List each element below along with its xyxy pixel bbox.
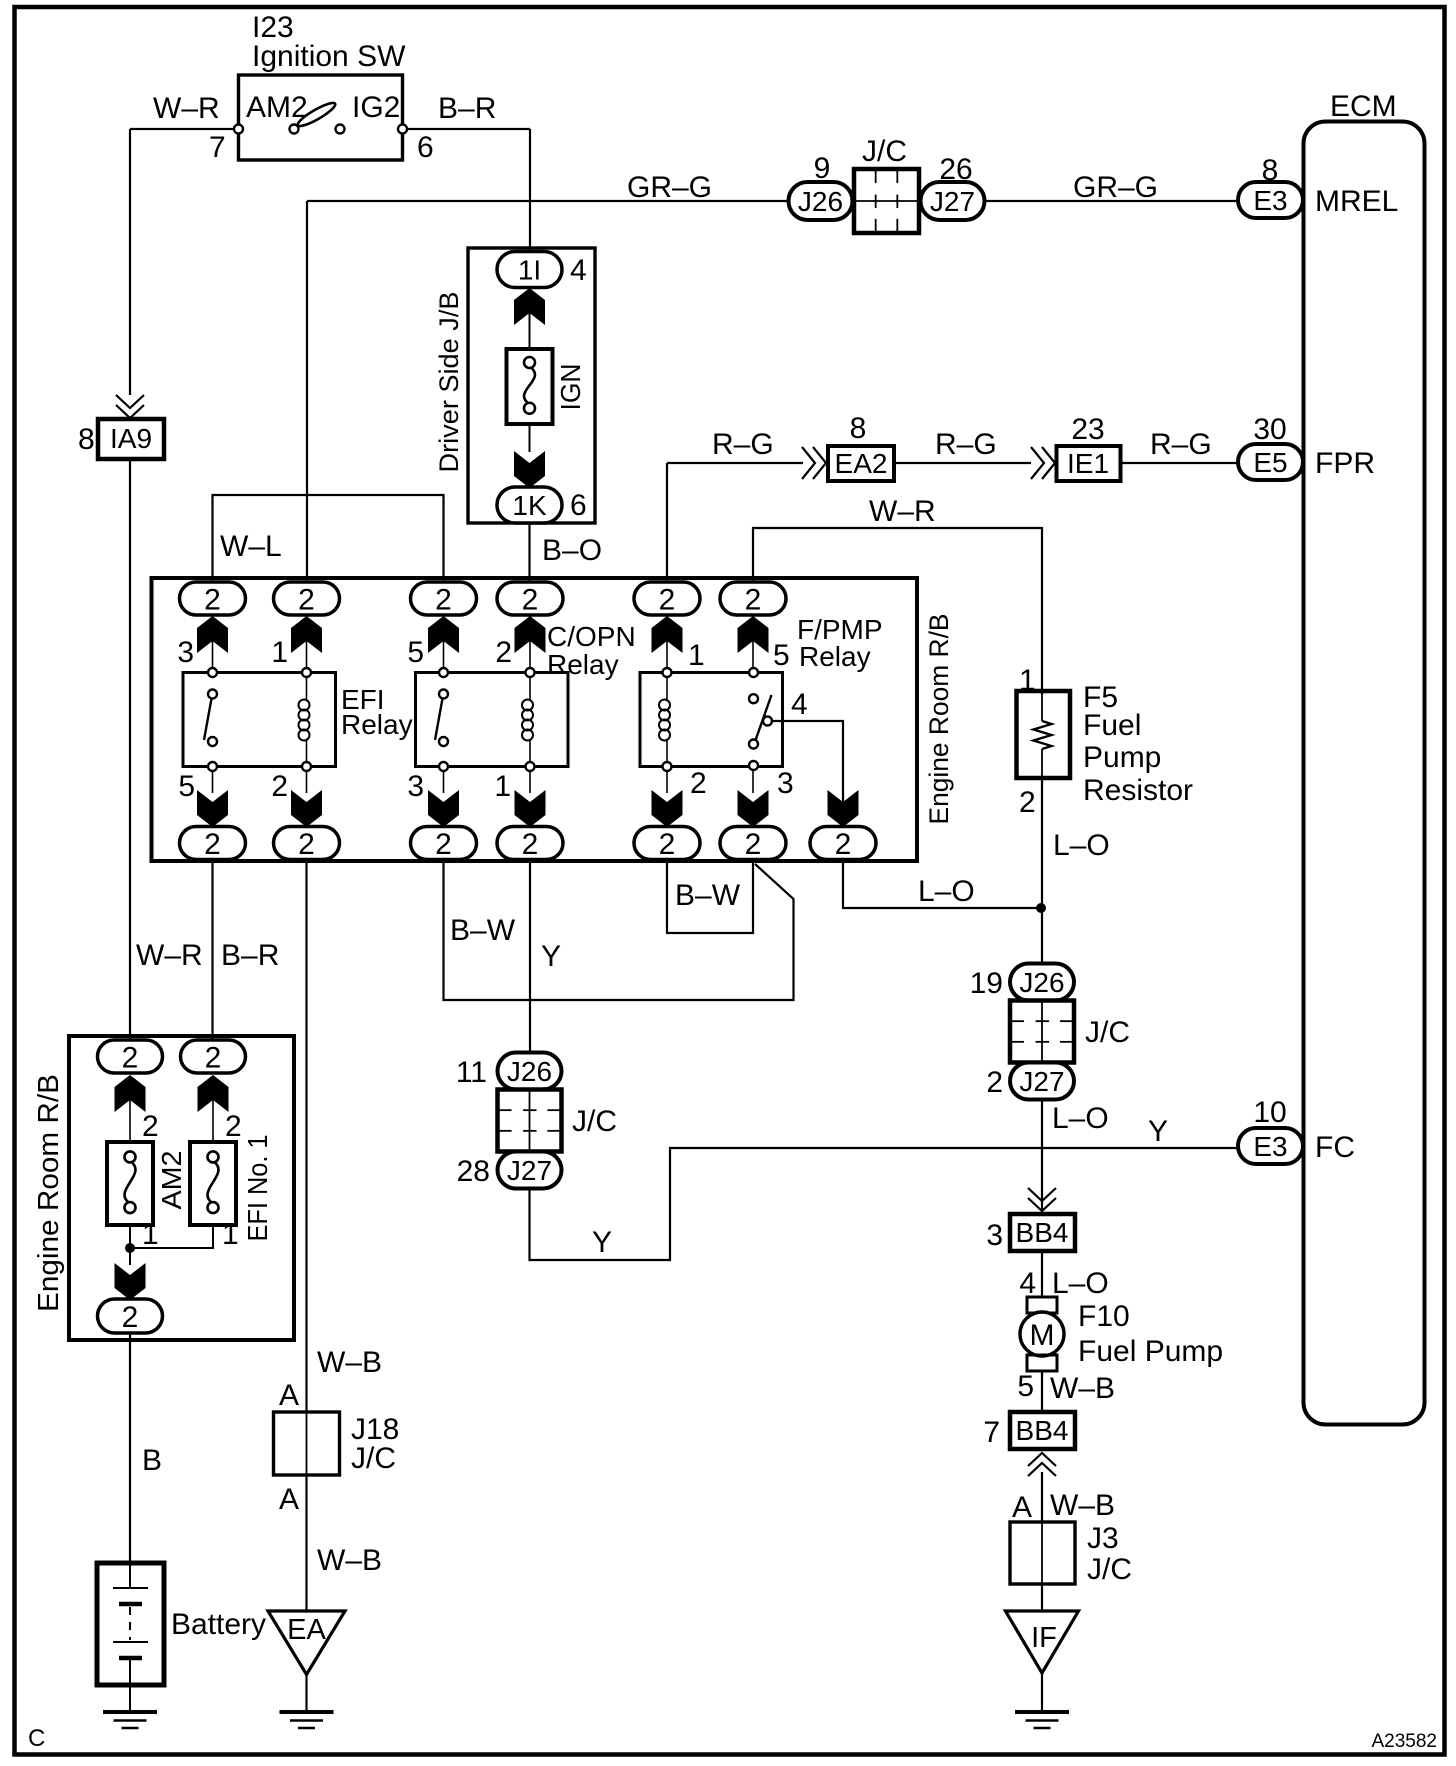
- relay block top cavity 2 at x=212.5: [180, 582, 246, 615]
- F/PMP relay switch: [755, 695, 772, 743]
- svg-text:EFI No. 1: EFI No. 1: [242, 1135, 273, 1242]
- wire Y J27 to ECM FC: [530, 1148, 1239, 1260]
- svg-text:Relay: Relay: [799, 641, 871, 672]
- fuse EFI No. 1: [190, 1142, 236, 1225]
- connector 1K pin 6: [497, 487, 562, 523]
- svg-text:R–G: R–G: [712, 428, 774, 461]
- svg-text:2: 2: [659, 828, 676, 861]
- svg-text:Relay: Relay: [341, 709, 413, 740]
- svg-text:J/C: J/C: [1087, 1553, 1132, 1586]
- wire B-O to C/OPN relay: [528, 523, 530, 583]
- svg-text:Resistor: Resistor: [1083, 774, 1193, 807]
- svg-text:B–O: B–O: [542, 534, 602, 567]
- svg-text:AM2: AM2: [246, 91, 308, 124]
- svg-text:F10: F10: [1078, 1300, 1130, 1333]
- arrow down above bottom cavity x=843: [828, 790, 859, 827]
- connector BB4 pin 3: [1010, 1214, 1075, 1251]
- fuel pump F10 motor: [1027, 1297, 1057, 1313]
- svg-text:W–B: W–B: [1050, 1372, 1115, 1405]
- svg-text:4: 4: [570, 254, 587, 287]
- svg-text:1: 1: [688, 639, 705, 672]
- ECM pin E3 FC: [1238, 1128, 1303, 1164]
- relay block top cavity 2 at x=753: [720, 582, 786, 615]
- connector IE1 pin 23: [1031, 447, 1044, 479]
- svg-text:J26: J26: [1019, 967, 1064, 998]
- svg-text:2: 2: [745, 828, 762, 861]
- arrow up below cavity x=212.5: [197, 616, 228, 653]
- svg-text:26: 26: [939, 153, 972, 186]
- svg-text:L–O: L–O: [1053, 829, 1110, 862]
- svg-text:Y: Y: [592, 1226, 612, 1259]
- arrow up below cavity x=667: [652, 616, 683, 653]
- svg-text:Ignition SW: Ignition SW: [252, 40, 406, 73]
- relay block top cavity 2 at x=530: [497, 582, 563, 615]
- fuel pump resistor F5 box: [1017, 691, 1071, 778]
- wire B fuse block to battery: [129, 1333, 131, 1563]
- svg-text:Pump: Pump: [1083, 741, 1161, 774]
- ignition switch lever: [295, 100, 337, 130]
- arrow down above bottom cavity x=443.5: [428, 790, 459, 827]
- arrow down above bottom cavity x=667: [652, 790, 683, 827]
- relay block bottom cavity 2 at x=843: [810, 827, 876, 860]
- wire W-R ignition feed: [130, 128, 238, 130]
- fuel pump resistor zigzag: [1041, 695, 1043, 721]
- svg-text:4: 4: [1019, 1267, 1036, 1300]
- relay block bottom cavity 2 at x=212.5: [180, 827, 246, 860]
- svg-text:28: 28: [457, 1155, 490, 1188]
- svg-text:2: 2: [522, 583, 539, 616]
- svg-text:Fuel Pump: Fuel Pump: [1078, 1335, 1223, 1368]
- connector EA2 pin 8: [802, 447, 815, 479]
- svg-text:11: 11: [456, 1056, 487, 1089]
- svg-text:Driver Side J/B: Driver Side J/B: [434, 292, 464, 473]
- svg-text:FPR: FPR: [1315, 447, 1375, 480]
- junction connector J26 pin 19: [1010, 964, 1074, 1001]
- svg-text:1K: 1K: [512, 490, 547, 521]
- svg-text:23: 23: [1071, 413, 1104, 446]
- svg-text:5: 5: [773, 639, 790, 672]
- svg-text:E3: E3: [1253, 1131, 1287, 1162]
- wire W-B EFI pin2 to J18: [305, 860, 307, 1413]
- wire to IF ground: [1041, 1584, 1043, 1611]
- arrow up into 1I: [514, 288, 545, 325]
- connector 1I pin 4: [497, 252, 562, 288]
- svg-text:2: 2: [298, 583, 315, 616]
- wire B-R from IG2: [403, 128, 530, 130]
- svg-text:E5: E5: [1253, 447, 1287, 478]
- relay block top cavity 2 at x=306.5: [274, 582, 340, 615]
- svg-text:W–R: W–R: [153, 92, 220, 125]
- svg-text:2: 2: [435, 583, 452, 616]
- svg-text:B–W: B–W: [675, 879, 741, 912]
- svg-text:3: 3: [177, 636, 194, 669]
- wire Y C/OPN pin1 to J/C: [529, 860, 531, 1053]
- wire L-O F/PMP pin4 branch: [843, 860, 1041, 909]
- svg-text:Engine Room R/B: Engine Room R/B: [924, 614, 954, 825]
- svg-text:R–G: R–G: [935, 428, 997, 461]
- ECM pin E3 MREL: [1238, 182, 1303, 218]
- svg-text:1: 1: [142, 1218, 159, 1251]
- Engine Room R/B relay block box: [152, 578, 918, 861]
- F/PMP relay coil: [666, 673, 668, 701]
- svg-text:Y: Y: [1148, 1115, 1168, 1148]
- F/PMP relay box: [640, 673, 783, 767]
- svg-text:IA9: IA9: [110, 423, 152, 454]
- svg-text:E3: E3: [1253, 185, 1287, 216]
- svg-text:EA2: EA2: [835, 448, 888, 479]
- arrow down to 1K: [514, 451, 545, 488]
- svg-text:L–O: L–O: [1052, 1102, 1109, 1135]
- svg-text:A23582: A23582: [1371, 1731, 1437, 1752]
- svg-text:IG2: IG2: [352, 91, 400, 124]
- svg-text:C: C: [28, 1725, 45, 1752]
- svg-text:W–B: W–B: [1050, 1489, 1115, 1522]
- svg-text:2: 2: [122, 1301, 139, 1334]
- svg-text:W–R: W–R: [136, 939, 203, 972]
- arrow down above bottom cavity x=530: [515, 790, 546, 827]
- svg-text:1: 1: [222, 1218, 239, 1251]
- ground point EA: [268, 1611, 345, 1675]
- relay block top cavity 2 at x=443.5: [411, 582, 477, 615]
- junction connector J3: [1010, 1522, 1075, 1584]
- ground point IF: [1006, 1611, 1079, 1673]
- svg-text:3: 3: [777, 767, 794, 800]
- svg-text:W–B: W–B: [317, 1346, 382, 1379]
- chevron into BB4: [1028, 1188, 1056, 1201]
- wire B-W C/OPN pin3 to F/PMP pin3: [444, 860, 794, 1001]
- svg-text:19: 19: [970, 967, 1003, 1000]
- svg-text:W–R: W–R: [869, 495, 936, 528]
- svg-text:B–W: B–W: [450, 914, 516, 947]
- Engine Room R/B fuse block box: [69, 1036, 294, 1340]
- svg-text:9: 9: [814, 152, 831, 185]
- svg-text:FC: FC: [1315, 1131, 1355, 1164]
- wire W-R down-left: [129, 129, 131, 395]
- wire W-B BB4 to J3: [1041, 1472, 1043, 1522]
- wire GR-G from EFI relay coil: [307, 200, 789, 202]
- svg-text:GR–G: GR–G: [627, 171, 712, 204]
- svg-text:5: 5: [407, 636, 424, 669]
- connector IA9 pin 8: [98, 419, 164, 459]
- svg-text:3: 3: [986, 1219, 1003, 1252]
- svg-text:R–G: R–G: [1150, 428, 1212, 461]
- chevron into IA9: [116, 395, 144, 408]
- svg-text:1: 1: [494, 770, 511, 803]
- wire W-B J18 to EA: [305, 1475, 307, 1611]
- svg-text:2: 2: [271, 770, 288, 803]
- fuse IGN: [507, 349, 553, 424]
- battery box: [97, 1563, 164, 1685]
- svg-text:J/C: J/C: [572, 1105, 617, 1138]
- svg-text:J27: J27: [1019, 1066, 1064, 1097]
- svg-text:BB4: BB4: [1016, 1415, 1069, 1446]
- arrow up below cavity x=443.5: [428, 616, 459, 653]
- svg-text:J26: J26: [798, 186, 843, 217]
- wire R-G EA2 to IE1: [894, 462, 1031, 464]
- svg-text:J/C: J/C: [1085, 1016, 1130, 1049]
- svg-text:1I: 1I: [518, 255, 541, 286]
- battery cells: [129, 1563, 131, 1588]
- svg-text:J/C: J/C: [351, 1442, 396, 1475]
- relay block bottom cavity 2 at x=667: [634, 827, 700, 860]
- svg-text:3: 3: [407, 770, 424, 803]
- Driver Side J/B box: [468, 248, 595, 523]
- fuse AM2: [107, 1142, 153, 1225]
- svg-text:W–L: W–L: [220, 530, 282, 563]
- svg-text:2: 2: [522, 828, 539, 861]
- svg-text:2: 2: [835, 828, 852, 861]
- junction connector J/C grid v1: [1010, 1001, 1074, 1063]
- relay block top cavity 2 at x=667: [634, 582, 700, 615]
- relay block bottom cavity 2 at x=753: [720, 827, 786, 860]
- svg-text:B: B: [142, 1444, 162, 1477]
- fuse block cavity 2 (EFI top): [181, 1040, 246, 1073]
- relay block bottom cavity 2 at x=443.5: [411, 827, 477, 860]
- EFI relay switch: [204, 699, 212, 741]
- svg-text:2: 2: [204, 583, 221, 616]
- svg-text:MREL: MREL: [1315, 185, 1398, 218]
- F/PMP relay pin4 wire: [768, 721, 844, 827]
- svg-text:2: 2: [298, 828, 315, 861]
- wire B-R EFI pin5 to fuse block: [211, 860, 213, 1041]
- svg-text:8: 8: [850, 412, 867, 445]
- svg-text:2: 2: [142, 1110, 159, 1143]
- relay block bottom cavity 2 at x=306.5: [274, 827, 340, 860]
- svg-text:6: 6: [570, 489, 587, 522]
- svg-text:2: 2: [986, 1066, 1003, 1099]
- svg-text:J27: J27: [507, 1155, 552, 1186]
- svg-text:J/C: J/C: [862, 135, 907, 168]
- wire R-G IE1 to ECM: [1121, 462, 1239, 464]
- svg-text:J26: J26: [507, 1056, 552, 1087]
- svg-text:M: M: [1030, 1319, 1055, 1352]
- svg-text:30: 30: [1253, 413, 1286, 446]
- svg-text:2: 2: [435, 828, 452, 861]
- arrow up below cavity x=753: [738, 616, 769, 653]
- svg-text:4: 4: [791, 688, 808, 721]
- svg-text:2: 2: [495, 636, 512, 669]
- arrow down above bottom cavity x=212.5: [197, 790, 228, 827]
- svg-text:7: 7: [983, 1416, 1000, 1449]
- junction connector J27 pin 28: [498, 1152, 562, 1189]
- svg-text:2: 2: [204, 828, 221, 861]
- arrow up below cavity x=306.5: [291, 616, 322, 653]
- C/OPN relay switch: [435, 699, 443, 741]
- svg-text:8: 8: [1262, 154, 1279, 187]
- wire W-R IA9 to engine room R/B: [129, 459, 131, 1040]
- svg-text:BB4: BB4: [1016, 1217, 1069, 1248]
- svg-text:7: 7: [209, 131, 226, 164]
- svg-text:B–R: B–R: [221, 939, 279, 972]
- junction connector J27 pin 2: [1010, 1063, 1074, 1100]
- svg-text:8: 8: [78, 423, 95, 456]
- svg-text:IF: IF: [1031, 1622, 1057, 1654]
- fuse block cavity 2 (AM2 top): [98, 1040, 163, 1073]
- svg-text:2: 2: [745, 583, 762, 616]
- junction connector J26 pin 9: [789, 182, 853, 220]
- svg-text:A: A: [279, 1379, 299, 1412]
- arrow up AM2: [115, 1075, 146, 1112]
- arrow up below cavity x=530: [515, 616, 546, 653]
- chevron out of BB4: [1028, 1463, 1056, 1476]
- svg-text:Relay: Relay: [547, 649, 619, 680]
- svg-text:A: A: [1012, 1491, 1032, 1524]
- wire R-G from F/PMP relay pin1: [667, 462, 803, 464]
- svg-text:Battery: Battery: [171, 1608, 266, 1641]
- wire L-O J27 to BB4: [1041, 1100, 1043, 1215]
- wire W-L EFI to C/OPN relay: [213, 495, 444, 583]
- svg-text:Engine Room R/B: Engine Room R/B: [33, 1074, 65, 1312]
- svg-text:IGN: IGN: [555, 364, 586, 411]
- svg-text:J3: J3: [1087, 1522, 1119, 1555]
- arrow up EFI No.1: [198, 1075, 229, 1112]
- svg-text:GR–G: GR–G: [1073, 171, 1158, 204]
- ignition switch pins: [234, 125, 243, 134]
- IF ground symbol: [1041, 1673, 1043, 1712]
- junction connector J27 pin 26: [921, 182, 985, 220]
- svg-text:2: 2: [205, 1041, 222, 1074]
- svg-text:J27: J27: [930, 186, 975, 217]
- arrow down above bottom cavity x=306.5: [291, 790, 322, 827]
- wire B-W F/PMP jumper: [667, 860, 753, 934]
- svg-text:Fuel: Fuel: [1083, 709, 1141, 742]
- svg-text:L–O: L–O: [1052, 1267, 1109, 1300]
- C/OPN relay box: [416, 673, 569, 767]
- wire W-B pump to BB4: [1041, 1371, 1043, 1412]
- wire W-R to fuel pump resistor: [753, 528, 1042, 695]
- svg-text:Y: Y: [541, 940, 561, 973]
- svg-text:B–R: B–R: [438, 92, 496, 125]
- svg-text:1: 1: [271, 636, 288, 669]
- svg-text:2: 2: [659, 583, 676, 616]
- svg-text:1: 1: [1019, 664, 1036, 697]
- junction connector J18: [274, 1412, 340, 1475]
- svg-text:5: 5: [178, 770, 195, 803]
- arrow down to battery cavity: [115, 1263, 146, 1300]
- svg-text:A: A: [279, 1483, 299, 1516]
- svg-text:C/OPN: C/OPN: [547, 621, 636, 652]
- svg-text:W–B: W–B: [317, 1544, 382, 1577]
- wire L-O resistor to J/C: [1041, 778, 1043, 965]
- wire IGN fuse to 1K: [529, 424, 531, 452]
- svg-text:2: 2: [1019, 786, 1036, 819]
- svg-text:AM2: AM2: [156, 1151, 187, 1210]
- connector BB4 pin 7: [1010, 1412, 1075, 1449]
- svg-text:2: 2: [225, 1110, 242, 1143]
- battery ground symbol: [103, 1710, 157, 1714]
- EFI relay coil: [306, 673, 308, 701]
- C/OPN relay coil: [529, 673, 531, 701]
- wire GR-G to ECM MREL: [985, 200, 1239, 202]
- ignition switch box: [239, 75, 403, 160]
- ECM pin E5 FPR: [1238, 444, 1303, 480]
- junction connector J/C grid v2: [498, 1090, 562, 1152]
- EFI relay box: [183, 673, 336, 767]
- junction connector J26 pin 11: [498, 1053, 562, 1090]
- EA ground symbol: [305, 1675, 307, 1713]
- svg-text:2: 2: [122, 1041, 139, 1074]
- svg-text:ECM: ECM: [1330, 90, 1397, 123]
- relay block bottom cavity 2 at x=530: [497, 827, 563, 860]
- svg-text:2: 2: [690, 767, 707, 800]
- svg-text:L–O: L–O: [918, 875, 975, 908]
- junction connector J/C grid: [854, 169, 919, 233]
- svg-text:6: 6: [417, 131, 434, 164]
- svg-text:IE1: IE1: [1067, 448, 1109, 479]
- arrow down above bottom cavity x=753: [738, 790, 769, 827]
- svg-text:5: 5: [1017, 1370, 1034, 1403]
- ECM body: [1304, 122, 1425, 1425]
- fuse outputs junction: [129, 1225, 131, 1265]
- svg-text:EA: EA: [287, 1614, 326, 1646]
- fuse block cavity 2 (battery): [98, 1299, 163, 1333]
- wire L-O BB4 to pump: [1041, 1251, 1043, 1297]
- svg-text:10: 10: [1253, 1096, 1286, 1129]
